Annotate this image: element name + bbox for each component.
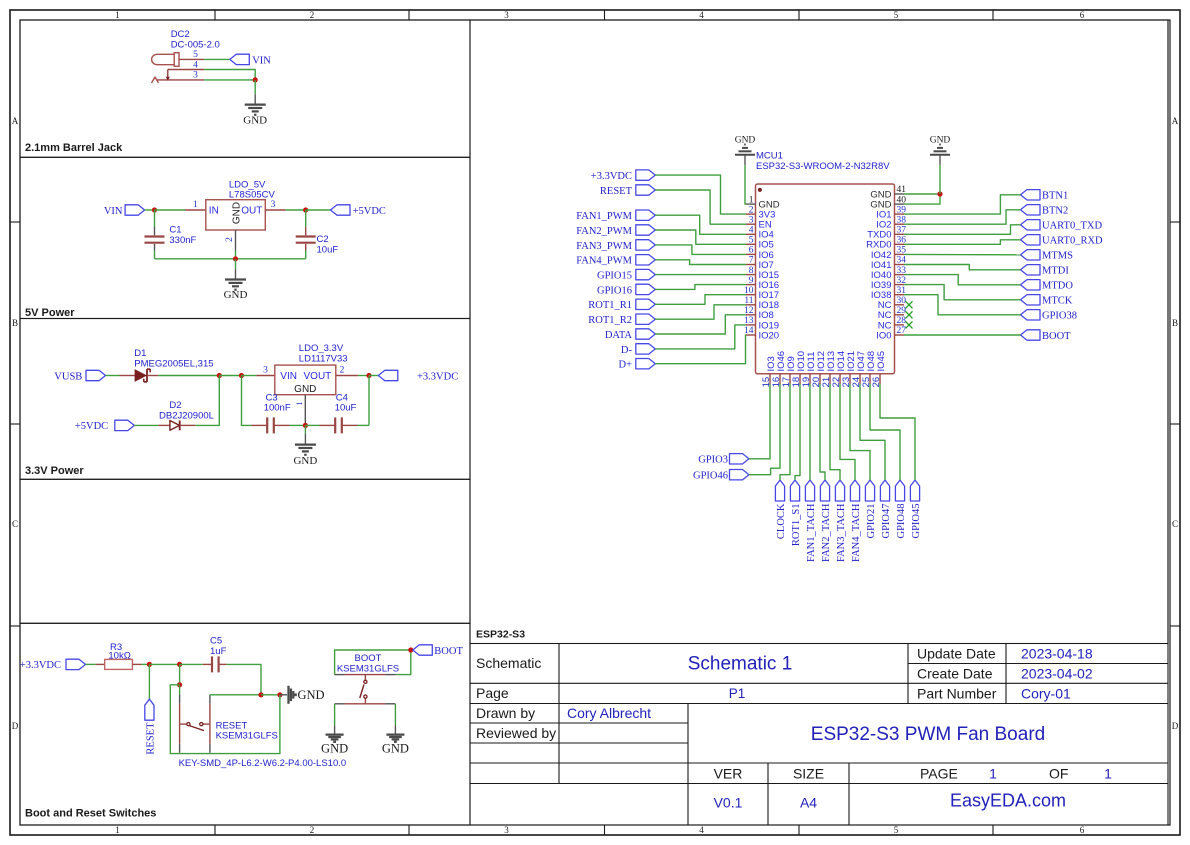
svg-text:Create Date: Create Date	[917, 666, 993, 682]
wire D1 to node	[158, 375, 219, 377]
svg-text:RESET: RESET	[216, 720, 248, 731]
pin 4 IO4 of MCU1	[746, 226, 774, 241]
svg-text:5V Power: 5V Power	[25, 307, 75, 319]
no-connect flag	[906, 301, 913, 308]
capacitor C4	[305, 376, 369, 434]
pin 31 IO38 of MCU1	[871, 286, 906, 301]
wire GPIO16	[655, 285, 746, 290]
svg-text:Page: Page	[476, 685, 509, 701]
wire gnd node up	[939, 155, 941, 194]
port RESET	[600, 185, 655, 197]
svg-text:VER: VER	[714, 765, 743, 781]
wire FAN1_PWM	[655, 215, 746, 234]
DC2 switch arrow	[166, 70, 170, 81]
no-connect flag	[906, 311, 913, 318]
pin 29 NC of MCU1	[878, 306, 906, 321]
svg-text:GND: GND	[298, 688, 325, 702]
wire GPIO15	[655, 274, 746, 276]
svg-text:3: 3	[263, 366, 268, 376]
wire C5 to gnd node	[227, 664, 261, 694]
svg-text:VIN: VIN	[252, 55, 271, 66]
svg-text:2: 2	[225, 237, 235, 242]
wire node2 to U33 pin3	[242, 375, 257, 377]
title block values	[567, 646, 1112, 811]
regulator LDO_5V labels	[229, 179, 276, 200]
wire BOOT	[904, 334, 1021, 336]
wire node to sideways ground	[280, 694, 287, 696]
svg-text:6: 6	[1080, 825, 1085, 835]
svg-text:DC-005-2.0: DC-005-2.0	[171, 40, 220, 51]
svg-text:GPIO47: GPIO47	[881, 504, 892, 539]
svg-text:GPIO45: GPIO45	[911, 504, 922, 539]
svg-text:GPIO15: GPIO15	[597, 271, 632, 282]
pin name VOUT	[304, 371, 332, 382]
port D+	[618, 359, 655, 371]
port GPIO48	[895, 480, 907, 539]
port MTDO	[1021, 280, 1074, 292]
wire VUSB to D1	[106, 375, 120, 377]
MCU MCU1 labels	[756, 151, 890, 173]
svg-text:C2: C2	[317, 234, 329, 245]
pin 12 IO8 of MCU1	[744, 306, 774, 321]
svg-text:MTDI: MTDI	[1042, 266, 1069, 277]
wire node to +5VDC	[306, 209, 331, 211]
svg-text:FAN3_TACH: FAN3_TACH	[836, 503, 847, 562]
svg-text:2: 2	[340, 366, 345, 376]
port BTN1	[1021, 190, 1069, 202]
svg-text:D: D	[12, 721, 19, 731]
svg-text:28: 28	[897, 316, 907, 326]
node VIN33	[239, 373, 244, 378]
pin 3 of LDO_5V	[265, 200, 285, 210]
pin 30 NC of MCU1	[878, 296, 906, 311]
port GPIO16	[597, 284, 655, 296]
pin 22 IO14 of MCU1	[831, 351, 847, 387]
pin 25 IO48 of MCU1	[861, 351, 877, 387]
port GPIO15	[597, 269, 655, 281]
svg-text:C: C	[1172, 519, 1178, 529]
section label 3.3V Power	[25, 465, 84, 477]
pin 15 IO3 of MCU1	[761, 356, 777, 387]
wire node2 to C5	[180, 663, 203, 665]
svg-text:RESET: RESET	[600, 186, 633, 197]
port DATA	[605, 329, 655, 341]
pin 14 IO20 of MCU1	[744, 326, 779, 341]
svg-text:GND: GND	[735, 136, 756, 146]
ground GND mcu left	[735, 136, 756, 155]
svg-text:VIN: VIN	[280, 371, 297, 382]
wire FAN3_PWM	[655, 245, 746, 255]
wire R3 to node	[141, 663, 149, 665]
ground GND sideways	[289, 686, 325, 704]
port +3.3VDC	[591, 170, 656, 182]
ground GND boot right	[382, 735, 409, 756]
no-connect flag	[906, 321, 913, 328]
svg-text:GND: GND	[930, 136, 951, 146]
wire node to node2 boot	[149, 663, 179, 665]
wire GPIO48	[870, 384, 900, 480]
wire UART0_TXD	[904, 225, 1021, 235]
node RESET pullup	[147, 662, 152, 667]
section label Boot and Reset Switches	[25, 808, 156, 820]
wire +5VDC to D2	[134, 424, 158, 426]
wire UART0_RXD	[904, 240, 1021, 245]
svg-text:Schematic: Schematic	[476, 655, 541, 671]
svg-text:KSEM31GLFS: KSEM31GLFS	[216, 731, 278, 742]
MCU MCU1 body	[756, 184, 895, 374]
pin 10 IO17 of MCU1	[744, 286, 779, 301]
port VUSB	[54, 370, 105, 382]
svg-text:GND: GND	[232, 202, 243, 224]
svg-text:+3.3VDC: +3.3VDC	[20, 660, 61, 671]
svg-text:KEY-SMD_4P-L6.2-W6.2-P4.00-LS1: KEY-SMD_4P-L6.2-W6.2-P4.00-LS10.0	[179, 758, 347, 769]
diode D1 labels	[134, 348, 213, 369]
svg-text:10uF: 10uF	[317, 244, 339, 255]
port +3.3VDC boot	[20, 659, 86, 671]
svg-text:C1: C1	[169, 225, 181, 236]
svg-text:5: 5	[749, 236, 754, 246]
ground GND boot left	[321, 735, 348, 756]
pin 40 GND of MCU1	[870, 195, 906, 210]
svg-text:GND: GND	[382, 742, 409, 756]
wire D-	[655, 325, 746, 349]
svg-text:VIN: VIN	[104, 206, 123, 217]
wire node to U-5V pin1	[155, 209, 186, 211]
svg-text:2: 2	[310, 825, 315, 835]
svg-text:Reviewed by: Reviewed by	[476, 725, 556, 741]
svg-text:EasyEDA.com: EasyEDA.com	[950, 791, 1066, 811]
pin 11 IO18 of MCU1	[744, 296, 779, 311]
node BOOT flag	[408, 647, 413, 652]
node OUT C2	[303, 207, 308, 212]
svg-text:GPIO38: GPIO38	[1042, 311, 1077, 322]
svg-text:3: 3	[504, 10, 509, 20]
svg-text:1: 1	[295, 402, 304, 406]
wire tap to SW1 pin	[179, 685, 181, 695]
pin 13 IO19 of MCU1	[744, 316, 779, 331]
port FAN4_PWM	[576, 255, 655, 267]
pin 16 IO46 of MCU1	[771, 351, 787, 387]
wire VIN to node	[145, 209, 155, 211]
pin 38 IO2 of MCU1	[876, 215, 906, 230]
wire GPIO3	[749, 384, 770, 459]
pin 7 IO7 of MCU1	[746, 256, 774, 271]
port UART0_RXD	[1021, 235, 1104, 247]
diode D2 labels	[159, 400, 214, 421]
svg-text:CLOCK: CLOCK	[776, 503, 787, 539]
svg-text:30: 30	[897, 296, 907, 306]
wire ROT1_R1	[655, 295, 746, 305]
diode D2	[158, 421, 195, 431]
svg-text:BOOT: BOOT	[434, 646, 463, 657]
wire node to ground 3.3V	[304, 425, 306, 444]
svg-text:D+: D+	[618, 360, 632, 371]
svg-text:ESP32-S3 PWM Fan Board: ESP32-S3 PWM Fan Board	[811, 724, 1045, 745]
svg-text:B: B	[1172, 318, 1178, 328]
wire node2 down to rail	[242, 376, 252, 426]
section label ESP32-S3	[476, 629, 525, 641]
node D1 D2	[217, 373, 222, 378]
capacitor C1	[145, 210, 197, 259]
resistor R3	[96, 659, 142, 669]
pin 24 IO47 of MCU1	[851, 351, 867, 387]
wire +3.3VDC	[655, 175, 746, 214]
svg-text:A4: A4	[800, 795, 817, 811]
wire MTDI	[904, 265, 1021, 270]
wire node down to RESET flag	[148, 664, 150, 699]
svg-text:ESP32-S3-WROOM-2-N32R8V: ESP32-S3-WROOM-2-N32R8V	[756, 161, 890, 172]
svg-text:C5: C5	[210, 635, 222, 646]
svg-text:1: 1	[989, 765, 997, 781]
pin 3 EN of MCU1	[746, 215, 772, 230]
wire BTN1	[904, 195, 1021, 214]
svg-text:IO0: IO0	[876, 330, 891, 341]
svg-text:1uF: 1uF	[210, 646, 227, 657]
capacitor C5 labels	[210, 635, 227, 656]
svg-text:FAN2_TACH: FAN2_TACH	[821, 503, 832, 562]
svg-text:A: A	[1172, 116, 1179, 126]
title block labels	[476, 646, 1068, 782]
port VIN 5V	[104, 205, 145, 217]
port ROT1_R1	[588, 299, 655, 311]
wire BOOT sw to ground left	[334, 704, 336, 735]
capacitor C3 labels	[264, 392, 291, 413]
DC2 spring contact	[152, 77, 159, 83]
svg-text:+3.3VDC: +3.3VDC	[417, 371, 458, 382]
svg-text:A: A	[12, 116, 19, 126]
wire GPIO21	[850, 384, 870, 480]
switch BOOT KSEM31GLFS	[335, 675, 396, 704]
svg-text:FAN3_PWM: FAN3_PWM	[576, 241, 632, 252]
svg-text:1: 1	[193, 200, 198, 210]
pin 26 IO45 of MCU1	[871, 351, 887, 387]
svg-text:+5VDC: +5VDC	[353, 206, 386, 217]
barrel jack DC2 body	[152, 53, 179, 67]
wire GPIO47	[860, 384, 885, 480]
pin name GND of U-3.3V	[294, 384, 316, 395]
port GPIO45	[910, 480, 922, 539]
wire BTN2	[904, 210, 1021, 224]
ground GND of 3.3V	[293, 445, 317, 467]
svg-text:ROT1_S1: ROT1_S1	[791, 504, 802, 547]
section label 2.1mm Barrel Jack	[25, 142, 123, 154]
port GPIO38	[1021, 310, 1078, 322]
svg-text:MTMS: MTMS	[1042, 251, 1073, 262]
wire ground rail 5V	[155, 251, 306, 259]
svg-text:GPIO3: GPIO3	[698, 455, 728, 466]
node DC2 ground	[253, 77, 258, 82]
svg-text:Cory-01: Cory-01	[1021, 686, 1071, 702]
node ground 5V	[233, 256, 238, 261]
pin 28 NC of MCU1	[878, 316, 906, 331]
wire SW1 top right	[210, 694, 261, 696]
pin 21 IO13 of MCU1	[821, 351, 837, 387]
svg-text:5: 5	[193, 50, 198, 60]
svg-text:LDO_5V: LDO_5V	[229, 179, 266, 190]
svg-text:D1: D1	[134, 348, 146, 359]
regulator LDO_3.3V labels	[299, 343, 348, 364]
pin 5 IO5 of MCU1	[746, 236, 774, 251]
pin 41 GND of MCU1	[870, 185, 906, 200]
svg-text:BTN2: BTN2	[1042, 206, 1068, 217]
pin 8 IO15 of MCU1	[746, 266, 779, 281]
svg-text:B: B	[12, 318, 18, 328]
svg-text:4: 4	[193, 60, 198, 70]
svg-text:Part Number: Part Number	[917, 686, 997, 702]
wire U loop SW1	[170, 685, 179, 754]
wire gnd node to node	[261, 694, 280, 696]
svg-text:DC2: DC2	[171, 29, 190, 40]
wire node2 down	[179, 664, 181, 684]
svg-text:V0.1: V0.1	[714, 795, 743, 811]
svg-text:GND: GND	[294, 384, 316, 395]
pin 18 IO10 of MCU1	[791, 351, 807, 387]
port FAN3_PWM	[576, 240, 655, 252]
svg-text:6: 6	[749, 246, 754, 256]
pin 27 IO0 of MCU1	[876, 326, 906, 341]
port UART0_TXD	[1021, 220, 1103, 232]
wire pin40 to gnd node	[904, 194, 940, 204]
port GPIO47	[880, 480, 892, 539]
svg-text:Boot and Reset Switches: Boot and Reset Switches	[25, 808, 156, 820]
svg-text:DATA: DATA	[605, 330, 633, 341]
svg-text:FAN2_PWM: FAN2_PWM	[576, 226, 632, 237]
svg-text:C: C	[12, 519, 18, 529]
port FAN2_PWM	[576, 225, 655, 237]
wire FAN2_PWM	[655, 230, 746, 244]
svg-text:FAN1_TACH: FAN1_TACH	[806, 503, 817, 562]
wire +3.3VDC to R3	[86, 663, 96, 665]
capacitor C5	[203, 656, 227, 672]
svg-text:VUSB: VUSB	[54, 371, 82, 382]
svg-text:MCU1: MCU1	[756, 151, 783, 162]
svg-text:D2: D2	[169, 400, 181, 411]
wire pin3 to node	[204, 79, 255, 81]
svg-text:2: 2	[749, 205, 754, 215]
port GPIO21	[865, 480, 877, 539]
port MTCK	[1021, 295, 1073, 307]
svg-text:FAN1_PWM: FAN1_PWM	[576, 211, 632, 222]
pin 9 IO16 of MCU1	[746, 276, 779, 291]
barrel jack DC2 labels	[171, 29, 220, 51]
svg-text:4: 4	[699, 10, 704, 20]
svg-text:7: 7	[749, 256, 754, 266]
capacitor C3	[252, 417, 306, 433]
wire RESET	[655, 190, 746, 224]
wire SW1 bottom loop	[180, 695, 280, 754]
port +3.3VDC	[378, 370, 458, 382]
pin 1 GND of LDO_3.3V	[295, 395, 306, 426]
svg-text:ESP32-S3: ESP32-S3	[476, 629, 525, 641]
svg-text:Drawn by: Drawn by	[476, 705, 535, 721]
wire node to ground	[254, 80, 256, 105]
port GPIO3	[698, 454, 749, 466]
regulator U-3.3V body	[275, 365, 336, 395]
svg-text:OF: OF	[1049, 765, 1068, 781]
port FAN1_PWM	[576, 210, 655, 222]
svg-text:GND: GND	[224, 289, 248, 301]
pin 17 IO9 of MCU1	[781, 356, 797, 387]
pin name VIN	[280, 371, 297, 382]
wire FAN3_TACH	[830, 384, 840, 480]
pin 35 IO42 of MCU1	[871, 246, 906, 261]
svg-text:6: 6	[1080, 10, 1085, 20]
capacitor C2	[296, 210, 339, 259]
wire DATA	[655, 315, 746, 334]
pin 6 IO6 of MCU1	[746, 246, 774, 261]
svg-text:IN: IN	[209, 205, 219, 216]
svg-text:3: 3	[271, 200, 276, 210]
svg-text:D: D	[1172, 721, 1179, 731]
node SW1 tap	[177, 682, 182, 687]
svg-text:BTN1: BTN1	[1042, 191, 1068, 202]
svg-text:10uF: 10uF	[335, 402, 357, 413]
wire ROT1_S1	[795, 384, 800, 480]
svg-text:UART0_RXD: UART0_RXD	[1042, 236, 1103, 247]
port ROT1_S1	[790, 480, 802, 546]
port BTN2	[1021, 205, 1069, 217]
svg-text:GND: GND	[293, 455, 317, 467]
ground GND mcu right	[930, 136, 951, 155]
svg-text:SIZE: SIZE	[793, 765, 824, 781]
pin 39 IO1 of MCU1	[876, 205, 906, 220]
wire MTDO	[904, 275, 1021, 285]
wire D+	[655, 335, 746, 364]
svg-text:9: 9	[749, 276, 754, 286]
svg-text:1: 1	[749, 195, 754, 205]
svg-text:+3.3VDC: +3.3VDC	[591, 171, 632, 182]
svg-text:FAN4_TACH: FAN4_TACH	[851, 503, 862, 562]
wire FAN4_TACH	[840, 384, 855, 480]
svg-text:GPIO48: GPIO48	[896, 504, 907, 539]
pin 4 of DC2	[168, 60, 204, 70]
svg-text:UART0_TXD: UART0_TXD	[1042, 221, 1102, 232]
wire pin5 to VIN	[204, 58, 230, 60]
wire MTCK	[904, 285, 1021, 300]
svg-text:LDO_3.3V: LDO_3.3V	[299, 343, 344, 354]
node R3 C5	[177, 662, 182, 667]
svg-text:2: 2	[310, 10, 315, 20]
svg-text:ROT1_R1: ROT1_R1	[588, 300, 632, 311]
svg-text:GPIO21: GPIO21	[866, 504, 877, 539]
wire BOOT sw to ground right	[394, 704, 396, 735]
svg-text:5: 5	[894, 825, 899, 835]
pin 1 GND of MCU1	[746, 195, 780, 210]
svg-text:ROT1_R2: ROT1_R2	[588, 315, 632, 326]
svg-text:BOOT: BOOT	[355, 653, 382, 664]
svg-text:RESET: RESET	[145, 722, 156, 755]
node SW1 gnd	[277, 692, 282, 697]
svg-text:IO20: IO20	[759, 330, 780, 341]
pin name OUT	[241, 205, 262, 216]
wire node to +3.3VDC flag	[369, 375, 378, 377]
wire node to node2	[219, 375, 241, 377]
svg-text:VOUT: VOUT	[304, 371, 332, 382]
wire mcu gnd left	[745, 155, 746, 204]
wire pin41 to gnd node	[904, 193, 940, 195]
pin 34 IO41 of MCU1	[871, 256, 906, 271]
diode D1	[120, 369, 159, 382]
svg-text:P1: P1	[729, 686, 746, 701]
wire D2 to node	[195, 376, 219, 426]
svg-text:FAN4_PWM: FAN4_PWM	[576, 256, 632, 267]
svg-text:MTCK: MTCK	[1042, 296, 1073, 307]
svg-text:4: 4	[749, 226, 754, 236]
port FAN4_TACH	[850, 480, 862, 562]
port BOOT	[1021, 330, 1072, 342]
wire node to ground 5V	[235, 259, 237, 280]
svg-text:2.1mm Barrel Jack: 2.1mm Barrel Jack	[25, 142, 123, 154]
